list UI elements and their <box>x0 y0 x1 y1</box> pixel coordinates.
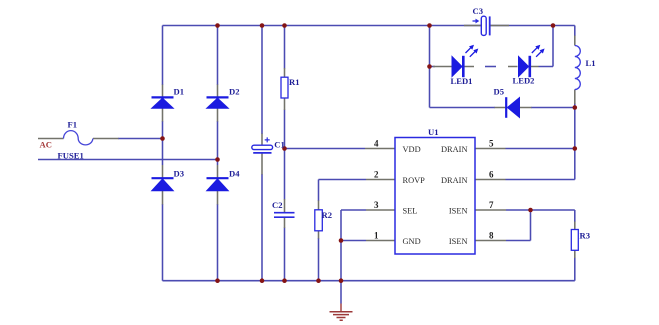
pin number 4 <box>374 139 379 149</box>
svg-text:DRAIN: DRAIN <box>441 176 468 185</box>
svg-text:ISEN: ISEN <box>449 237 468 246</box>
svg-text:C3: C3 <box>473 6 484 16</box>
pin D2 leads <box>217 85 219 122</box>
diode D1 <box>152 97 174 108</box>
node AC2 <box>215 157 220 162</box>
LED LED2 <box>519 45 545 77</box>
pin D1 leads <box>162 85 164 122</box>
label R1 <box>289 77 300 87</box>
svg-text:R1: R1 <box>289 77 300 87</box>
svg-text:SEL: SEL <box>403 207 418 216</box>
wire L1 column top <box>574 26 576 37</box>
svg-text:L1: L1 <box>586 58 596 68</box>
pin U1 pin3 <box>366 209 395 211</box>
node bottom rail / D4 <box>215 278 220 283</box>
wire LED row segments <box>430 66 554 68</box>
svg-text:2: 2 <box>374 170 379 180</box>
pin D5 leads <box>495 107 532 109</box>
label L1 <box>586 58 596 68</box>
pin name GND <box>403 237 421 246</box>
pin AC left lead <box>38 138 64 140</box>
node top rail / LED2 riser <box>551 23 556 28</box>
diode D2 <box>207 97 229 108</box>
pin U1 pin4 <box>365 148 395 150</box>
node D5 / L1 <box>573 105 578 110</box>
label U1 <box>428 127 439 137</box>
svg-text:D2: D2 <box>229 87 240 97</box>
pin U1 pin1 <box>366 240 395 242</box>
wire AC line 2 (FUSE1 net) <box>38 159 218 161</box>
pin fuse right lead <box>93 138 119 140</box>
wire ground column x=341 (SEL/GND net) <box>341 210 366 304</box>
svg-text:C2: C2 <box>272 200 283 210</box>
svg-text:R3: R3 <box>580 231 591 241</box>
node top rail / C1 <box>260 23 265 28</box>
pin U1 pin2 <box>366 179 395 181</box>
pin number 1 <box>374 231 379 241</box>
node LED1 anode <box>427 64 432 69</box>
wire R3 bottom <box>574 258 576 281</box>
resistor R2 <box>315 210 323 231</box>
node VDD <box>282 146 287 151</box>
svg-text:4: 4 <box>374 139 379 149</box>
pin D3 leads <box>162 165 164 205</box>
wire bottom rail <box>163 280 575 282</box>
pin name ROVP <box>403 176 426 185</box>
wire LED branch vertical x=429 <box>429 26 431 108</box>
svg-text:VDD: VDD <box>403 145 421 154</box>
pin name VDD <box>403 145 421 154</box>
pin LED1 leads <box>433 66 474 68</box>
label R3 <box>580 231 591 241</box>
node bottom rail / R2 <box>316 278 321 283</box>
wire C1 column <box>261 26 263 281</box>
pin R2 leads <box>318 201 320 239</box>
node top rail / LED branch <box>427 23 432 28</box>
pin C3 leads <box>464 25 509 27</box>
wire R2 bottom <box>318 238 320 281</box>
svg-text:F1: F1 <box>68 120 78 130</box>
label LED2 <box>513 76 535 86</box>
svg-text:FUSE1: FUSE1 <box>58 151 84 161</box>
wire top rail left of C3 <box>163 25 484 27</box>
pin number 6 <box>489 170 494 180</box>
svg-text:C1: C1 <box>274 139 285 149</box>
wire D2/D4 column <box>217 26 219 281</box>
pin C2 leads <box>284 199 286 228</box>
node drain pin5 <box>573 146 578 151</box>
pin D4 leads <box>217 165 219 205</box>
node ISEN <box>528 208 533 213</box>
label D5 <box>494 87 505 97</box>
ground <box>330 304 353 321</box>
pin name SEL <box>403 207 418 216</box>
wire pin4 VDD to R1/C2 node <box>285 148 366 150</box>
wire drain vertical x=575 <box>574 103 576 180</box>
label D1 <box>174 87 185 97</box>
op-amp U1 IC body <box>395 138 475 255</box>
pin name DRAIN pin5 <box>441 145 468 154</box>
label D2 <box>229 87 240 97</box>
node top rail / D2 <box>215 23 220 28</box>
node top rail / R1 <box>282 23 287 28</box>
resistor R3 <box>571 230 578 251</box>
capacitor C2 <box>274 213 295 218</box>
label LED1 <box>451 76 473 86</box>
resistor R1 <box>281 77 288 98</box>
node AC1 <box>160 136 165 141</box>
pin name DRAIN pin6 <box>441 176 468 185</box>
pin number 7 <box>489 200 494 210</box>
svg-text:ISEN: ISEN <box>449 207 468 216</box>
svg-text:3: 3 <box>374 200 379 210</box>
svg-text:LED1: LED1 <box>451 76 473 86</box>
pin number 8 <box>489 231 494 241</box>
wire D5 row <box>430 107 575 109</box>
label C2 <box>272 200 283 210</box>
svg-text:DRAIN: DRAIN <box>441 145 468 154</box>
label AC <box>40 139 52 149</box>
pin LED2 leads <box>508 66 539 68</box>
capacitor C3 (polarized) <box>473 16 490 35</box>
LED LED1 <box>452 45 478 77</box>
diode D4 <box>207 178 229 191</box>
wire top rail right of C3 <box>490 25 575 27</box>
node GND pin1 <box>339 238 344 243</box>
node bottom rail / C1 <box>260 278 265 283</box>
pin U1 pin6 <box>475 179 506 181</box>
node bottom rail / ground <box>339 278 344 283</box>
wire pin2 ROVP to R2 <box>319 180 367 202</box>
svg-text:D4: D4 <box>229 169 240 179</box>
pin number 3 <box>374 200 379 210</box>
diode D5 <box>506 97 519 118</box>
svg-text:8: 8 <box>489 231 494 241</box>
wire AC line 1 (after fuse) <box>118 138 163 140</box>
wire pin1 GND to ground column <box>341 240 366 242</box>
node bottom rail / C2 <box>282 278 287 283</box>
svg-text:D3: D3 <box>174 169 185 179</box>
pin U1 pin8 <box>475 240 506 242</box>
label FUSE1 <box>58 151 84 161</box>
svg-text:GND: GND <box>403 237 421 246</box>
wire R1/C2 column <box>284 26 286 281</box>
diode D3 <box>152 178 174 191</box>
wire pin8 ISEN riser <box>506 210 531 241</box>
pin R1 leads <box>284 68 286 110</box>
wire pin6 to drain column <box>506 179 575 181</box>
label C1 <box>274 139 285 149</box>
svg-text:5: 5 <box>489 139 494 149</box>
pin name ISEN pin7 <box>449 207 468 216</box>
label D4 <box>229 169 240 179</box>
capacitor C1 (polarized) <box>252 137 273 153</box>
wire dashed link between LED1 and LED2 <box>485 66 496 68</box>
wire pin5 to drain column <box>506 148 575 150</box>
pin C1 leads <box>261 134 263 175</box>
label C3 <box>473 6 484 16</box>
svg-text:ROVP: ROVP <box>403 176 426 185</box>
pin U1 pin5 <box>475 148 506 150</box>
svg-text:U1: U1 <box>428 127 439 137</box>
label D3 <box>174 169 185 179</box>
fuse F1 <box>64 131 93 145</box>
svg-text:6: 6 <box>489 170 494 180</box>
label F1 <box>68 120 78 130</box>
pin number 5 <box>489 139 494 149</box>
svg-text:7: 7 <box>489 200 494 210</box>
svg-text:D5: D5 <box>494 87 505 97</box>
pin L1 leads <box>574 36 576 105</box>
pin R3 leads <box>574 222 576 259</box>
pin U1 pin7 <box>475 209 506 211</box>
label R2 <box>322 210 333 220</box>
svg-text:AC: AC <box>40 139 52 149</box>
inductor L1 <box>575 46 581 90</box>
svg-text:1: 1 <box>374 231 379 241</box>
svg-text:D1: D1 <box>174 87 185 97</box>
pin number 2 <box>374 170 379 180</box>
pin name ISEN pin8 <box>449 237 468 246</box>
wire left vertical rail (D1/D3 column) <box>162 26 164 281</box>
svg-text:LED2: LED2 <box>513 76 535 86</box>
wire LED2 cathode riser x=553 <box>552 26 554 67</box>
wire pin7 ISEN net to R3 <box>506 210 575 222</box>
svg-text:R2: R2 <box>322 210 333 220</box>
